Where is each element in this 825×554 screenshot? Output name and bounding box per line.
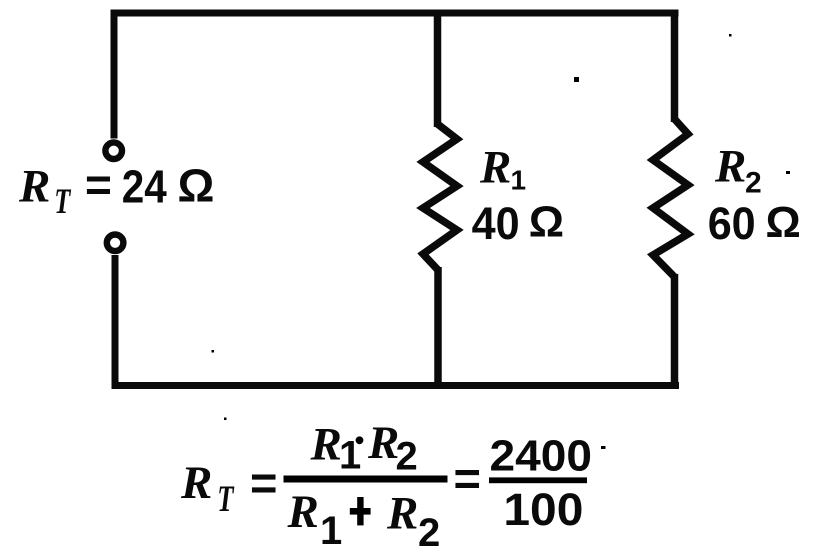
ink speck	[224, 418, 227, 421]
svg-text:=: =	[85, 159, 112, 211]
svg-text:1: 1	[320, 509, 342, 553]
wire right bottom	[671, 274, 679, 386]
ink speck	[786, 171, 790, 174]
svg-text:2: 2	[396, 434, 418, 478]
svg-text:100: 100	[503, 484, 583, 535]
svg-text:24: 24	[122, 161, 167, 213]
terminal lower	[107, 235, 124, 252]
svg-text:Ω: Ω	[178, 159, 215, 211]
svg-text:R: R	[18, 160, 50, 212]
fraction bar 1	[284, 476, 448, 483]
svg-text:T: T	[54, 181, 72, 221]
wire middle top	[434, 10, 442, 128]
wire right top	[671, 10, 679, 123]
svg-text:=: =	[250, 456, 277, 509]
svg-text:40: 40	[472, 198, 520, 249]
svg-text:R: R	[180, 457, 212, 509]
svg-text:R: R	[310, 419, 342, 471]
svg-text:1: 1	[511, 165, 527, 196]
svg-text:Ω: Ω	[529, 198, 564, 247]
svg-text:2400: 2400	[490, 431, 593, 480]
wire middle bottom	[434, 267, 442, 386]
formula RT	[180, 457, 235, 519]
denominator R1 + R2	[287, 486, 441, 554]
numerator R1.R2	[310, 417, 418, 479]
resistor R1	[423, 124, 457, 270]
resistor R2	[653, 119, 688, 277]
svg-text:2: 2	[745, 166, 762, 199]
svg-text:60: 60	[708, 198, 756, 249]
fraction bar 2	[489, 477, 587, 483]
wire top	[112, 10, 679, 17]
svg-text:R: R	[714, 141, 746, 193]
label 40 ohm	[472, 198, 564, 249]
svg-text:R: R	[479, 142, 511, 194]
terminal upper	[105, 142, 122, 159]
ink speck	[601, 446, 606, 449]
label R1	[479, 142, 526, 196]
svg-text:=: =	[454, 452, 481, 505]
svg-text:R: R	[287, 486, 319, 538]
svg-text:R: R	[386, 488, 418, 540]
svg-text:R: R	[367, 417, 399, 469]
svg-text:2: 2	[418, 511, 440, 554]
wire left upper	[111, 10, 118, 139]
ink speck	[729, 34, 732, 37]
label R2	[714, 141, 762, 200]
wire left lower	[112, 255, 119, 389]
wire bottom	[112, 382, 679, 389]
label 60 ohm	[708, 198, 801, 249]
svg-text:T: T	[217, 478, 234, 519]
ink speck	[439, 477, 446, 480]
label RT = 24 ohm	[18, 159, 214, 221]
svg-text:Ω: Ω	[766, 198, 801, 247]
ink speck	[574, 77, 579, 82]
ink speck	[212, 350, 215, 353]
